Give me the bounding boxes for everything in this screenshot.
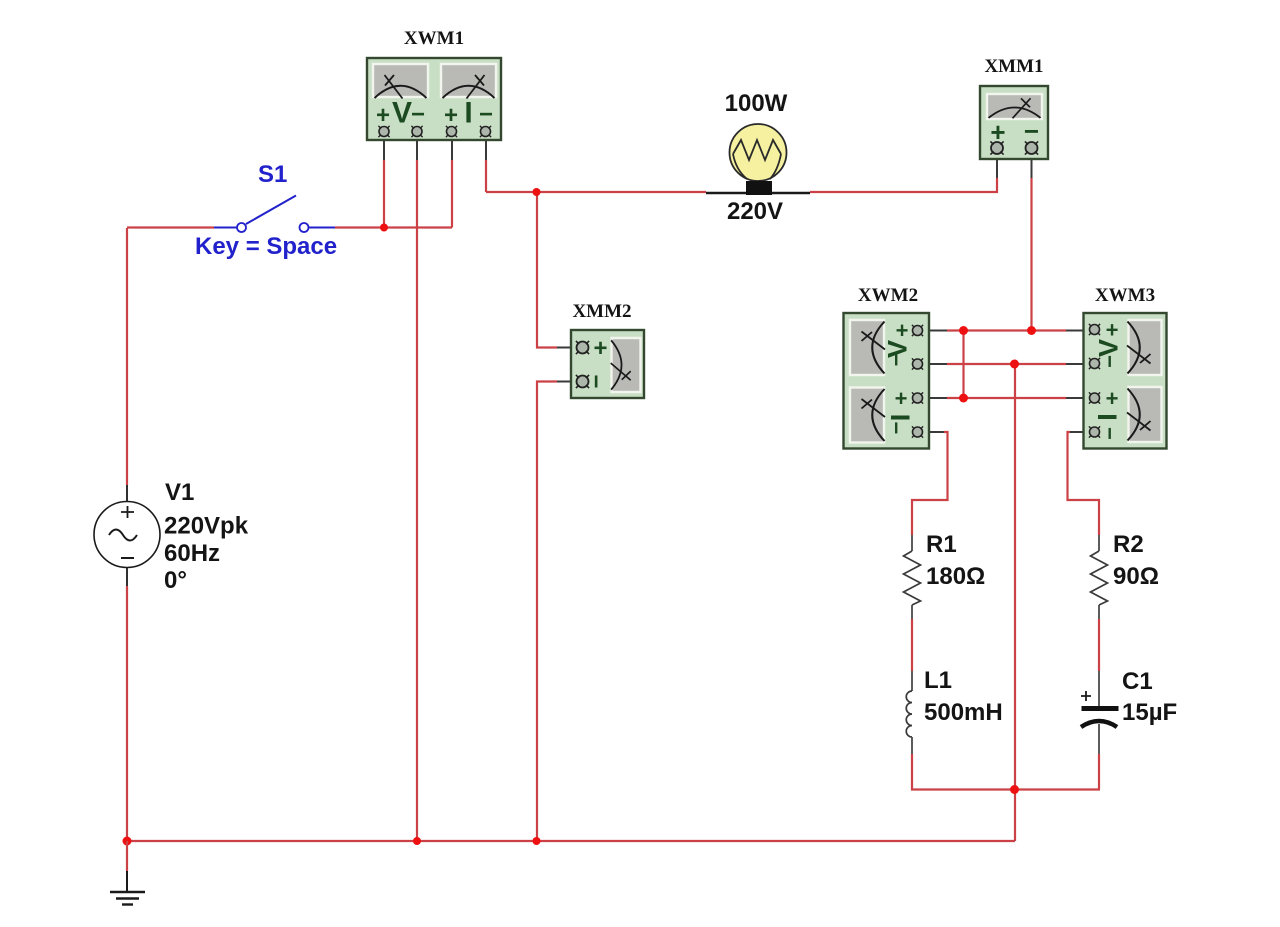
wire bbox=[126, 228, 128, 485]
junction node bbox=[533, 188, 541, 196]
wire bbox=[1098, 619, 1100, 671]
junction node bbox=[413, 837, 421, 845]
multimeter XMM1 bbox=[980, 86, 1048, 159]
wire bbox=[416, 136, 418, 841]
svg-text:100W: 100W bbox=[725, 90, 788, 117]
AC source V1 bbox=[94, 485, 160, 586]
svg-text:I: I bbox=[1093, 413, 1123, 421]
wire bbox=[1014, 364, 1016, 841]
junction node bbox=[959, 394, 968, 403]
switch S1 bbox=[214, 196, 335, 233]
junction node bbox=[1027, 326, 1036, 335]
wire bbox=[1098, 754, 1100, 790]
lamp X1 100W bbox=[730, 124, 787, 195]
wattmeter XWM1 bbox=[367, 58, 501, 140]
wire bbox=[383, 136, 385, 228]
svg-text:R2: R2 bbox=[1113, 531, 1144, 558]
svg-text:+: + bbox=[593, 335, 607, 362]
svg-text:XWM1: XWM1 bbox=[404, 28, 464, 49]
ground bbox=[110, 841, 145, 905]
wire bbox=[925, 363, 1089, 365]
multimeter XMM2 bbox=[571, 330, 644, 398]
svg-text:180Ω: 180Ω bbox=[926, 563, 985, 590]
svg-text:−: − bbox=[1097, 427, 1122, 440]
capacitor C1 bbox=[1081, 671, 1119, 754]
junction node bbox=[1010, 360, 1019, 369]
L1 labels bbox=[924, 667, 1003, 726]
svg-text:220V: 220V bbox=[727, 198, 783, 225]
wire bbox=[925, 397, 1089, 399]
svg-text:500mH: 500mH bbox=[924, 699, 1003, 726]
S1 label bbox=[258, 161, 287, 188]
svg-text:XMM2: XMM2 bbox=[572, 301, 631, 322]
svg-text:C1: C1 bbox=[1122, 668, 1153, 695]
resistor R2 bbox=[1091, 535, 1108, 619]
wire bbox=[925, 329, 1089, 331]
resistor R1 bbox=[904, 535, 921, 619]
wire bbox=[537, 382, 578, 842]
svg-text:V: V bbox=[392, 97, 412, 130]
junction node bbox=[123, 837, 132, 846]
wattmeter XWM3 bbox=[1084, 313, 1167, 449]
junction node bbox=[959, 326, 968, 335]
svg-text:0°: 0° bbox=[164, 567, 187, 594]
wire bbox=[451, 136, 453, 228]
junction node bbox=[533, 837, 541, 845]
svg-text:I: I bbox=[886, 414, 916, 422]
svg-text:+: + bbox=[1106, 318, 1119, 343]
junction node bbox=[1010, 785, 1019, 794]
wire bbox=[485, 136, 487, 192]
svg-text:XWM2: XWM2 bbox=[858, 285, 918, 306]
lamp label 220V bbox=[727, 198, 783, 225]
wire bbox=[912, 754, 1100, 790]
wire bbox=[127, 226, 214, 228]
R2 labels bbox=[1113, 531, 1159, 590]
junction node bbox=[380, 224, 388, 232]
svg-text:−: − bbox=[479, 101, 493, 128]
wire bbox=[127, 840, 1015, 842]
wire bbox=[706, 192, 810, 194]
svg-text:V1: V1 bbox=[165, 479, 194, 506]
svg-text:+: + bbox=[444, 102, 458, 129]
wire bbox=[537, 192, 578, 348]
wire bbox=[126, 586, 128, 841]
wire bbox=[486, 191, 706, 193]
svg-text:+: + bbox=[1106, 386, 1119, 411]
svg-text:XWM3: XWM3 bbox=[1095, 285, 1155, 306]
R1 labels bbox=[926, 531, 985, 590]
XMM2 title bbox=[572, 301, 631, 322]
svg-text:L1: L1 bbox=[924, 667, 952, 694]
C1 labels bbox=[1122, 668, 1177, 726]
svg-text:R1: R1 bbox=[926, 531, 957, 558]
XMM1 title bbox=[984, 56, 1043, 77]
svg-text:−: − bbox=[411, 101, 425, 128]
wire bbox=[810, 154, 997, 192]
V1 labels bbox=[164, 479, 249, 594]
svg-text:60Hz: 60Hz bbox=[164, 540, 220, 567]
svg-text:−: − bbox=[1097, 355, 1122, 368]
wire bbox=[1030, 154, 1032, 331]
svg-text:+: + bbox=[896, 318, 909, 343]
svg-text:S1: S1 bbox=[258, 161, 287, 188]
svg-text:Key = Space: Key = Space bbox=[195, 233, 337, 260]
lamp label 100W bbox=[725, 90, 788, 117]
wire bbox=[335, 226, 452, 228]
wire bbox=[1068, 432, 1100, 535]
XWM1 title bbox=[404, 28, 464, 49]
svg-text:+: + bbox=[895, 386, 908, 411]
svg-text:−: − bbox=[884, 354, 909, 367]
inductor L1 bbox=[906, 671, 912, 754]
svg-text:220Vpk: 220Vpk bbox=[164, 513, 249, 540]
svg-text:−: − bbox=[884, 422, 909, 435]
svg-text:+: + bbox=[376, 102, 390, 129]
svg-text:15µF: 15µF bbox=[1122, 699, 1177, 726]
svg-text:XMM1: XMM1 bbox=[984, 56, 1043, 77]
S1 key label bbox=[195, 233, 337, 260]
svg-text:I: I bbox=[464, 97, 472, 130]
XWM2 title bbox=[858, 285, 918, 306]
wire bbox=[962, 331, 964, 399]
svg-text:V: V bbox=[1094, 339, 1124, 357]
svg-text:90Ω: 90Ω bbox=[1113, 563, 1159, 590]
wire bbox=[912, 432, 948, 535]
wattmeter XWM2 bbox=[844, 313, 930, 449]
wire bbox=[911, 619, 913, 671]
XWM3 title bbox=[1095, 285, 1155, 306]
